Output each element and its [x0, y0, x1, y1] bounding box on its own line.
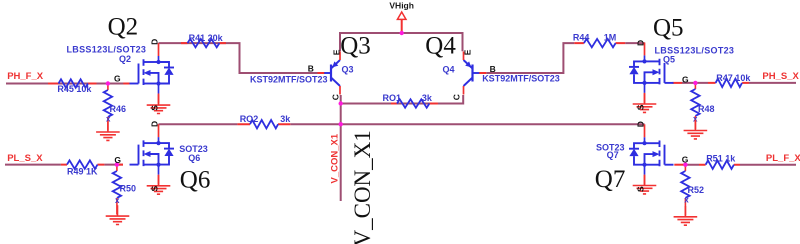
wire Q2 drain to Q3 base — [159, 43, 325, 73]
wire Q5 gate row — [682, 82, 796, 84]
svg-text:R52: R52 — [688, 185, 705, 195]
wire Q7 gate row — [685, 164, 796, 166]
svg-text:Q4: Q4 — [425, 33, 456, 60]
svg-text:PL_S_X: PL_S_X — [7, 153, 43, 164]
resistor R49 — [67, 160, 97, 168]
svg-text:Q6: Q6 — [188, 153, 200, 163]
svg-text:E: E — [331, 49, 341, 55]
svg-text:B: B — [308, 64, 314, 74]
wire red stubs R41 — [181, 42, 226, 44]
svg-text:Q6: Q6 — [180, 166, 211, 193]
svg-text:R41 20k: R41 20k — [189, 33, 224, 43]
svg-text:V_CON_X1: V_CON_X1 — [330, 133, 341, 183]
transistor Q5 (mirrored) — [629, 43, 674, 103]
wire red stub Q7 gate — [674, 164, 685, 166]
svg-text:D: D — [149, 39, 159, 45]
wire red stub Q4 base — [479, 72, 486, 74]
wire PL_S_X row — [5, 164, 123, 166]
wire red stubs R45 — [48, 83, 97, 85]
ground Q5 source — [633, 93, 657, 112]
node R45/R46 junction — [106, 81, 110, 85]
ground Q6 source — [147, 175, 171, 194]
resistor R44 — [584, 39, 616, 47]
resistor R46 — [104, 84, 126, 131]
svg-text:C: C — [452, 94, 462, 100]
svg-text:Q5: Q5 — [663, 54, 675, 64]
transistor Q6 — [130, 124, 175, 184]
resistor R47 — [716, 79, 742, 87]
svg-text:PL_F_X: PL_F_X — [766, 153, 800, 164]
svg-text:Q3: Q3 — [340, 33, 371, 60]
svg-text:R45 10k: R45 10k — [57, 84, 92, 94]
svg-text:R44: R44 — [573, 33, 590, 43]
wire V_CON vertical — [340, 104, 342, 202]
svg-text:VHigh: VHigh — [389, 0, 414, 10]
wire red stub Q6 gate — [117, 164, 123, 166]
resistor R41 — [188, 39, 220, 47]
resistor R50 — [113, 165, 136, 215]
svg-text:x: x — [684, 196, 689, 205]
svg-text:G: G — [682, 155, 689, 165]
svg-text:D: D — [149, 121, 159, 127]
svg-text:Q2: Q2 — [108, 14, 139, 41]
svg-text:3k: 3k — [422, 93, 433, 103]
svg-text:D: D — [635, 40, 645, 46]
svg-text:G: G — [682, 75, 689, 85]
wire RO1 row collector — [341, 95, 438, 104]
transistor Q4 (mirrored) — [464, 52, 480, 95]
ground Q2 source — [147, 94, 171, 113]
svg-text:S: S — [635, 186, 645, 192]
resistor R51 — [706, 161, 734, 169]
svg-text:KST92MTF/SOT23: KST92MTF/SOT23 — [482, 74, 560, 84]
svg-text:V_CON_X1: V_CON_X1 — [350, 130, 375, 244]
svg-text:Q4: Q4 — [443, 64, 455, 74]
svg-text:Q5: Q5 — [653, 14, 684, 41]
wire red stubs R51 — [699, 164, 740, 166]
wire Q4 base to R44 to Q5 drain — [486, 43, 644, 73]
svg-text:Q7: Q7 — [607, 150, 619, 160]
svg-text:R47 10k: R47 10k — [716, 73, 751, 83]
ground R50 — [106, 205, 130, 224]
svg-text:D: D — [635, 121, 645, 127]
node Q3 collector junction — [339, 101, 343, 105]
svg-text:G: G — [114, 74, 121, 84]
wire red stub VHigh — [401, 19, 403, 33]
node R51/R52 junction — [683, 163, 687, 167]
wire red stubs R49 — [61, 164, 105, 166]
transistor Q2 — [130, 43, 175, 103]
wire red stubs R47 — [708, 82, 749, 84]
resistor R45 — [59, 79, 89, 87]
resistor R52 — [681, 165, 704, 216]
svg-text:S: S — [149, 105, 159, 111]
svg-text:R51 1k: R51 1k — [706, 153, 736, 163]
power VHigh — [389, 0, 414, 19]
transistor Q7 (mirrored) — [629, 124, 674, 184]
svg-text:Q3: Q3 — [342, 64, 354, 74]
svg-text:PH_S_X: PH_S_X — [762, 71, 799, 82]
svg-text:G: G — [114, 155, 121, 165]
wire red stubs R44 — [574, 42, 625, 44]
wire PH_F_X row — [6, 83, 130, 85]
node R49/R50 junction — [115, 162, 119, 166]
svg-text:RO1: RO1 — [383, 93, 402, 103]
svg-text:KST92MTF/SOT23: KST92MTF/SOT23 — [250, 74, 328, 84]
svg-text:1M: 1M — [604, 33, 617, 43]
wire red stubs RO1 — [391, 103, 438, 105]
svg-text:PH_F_X: PH_F_X — [7, 71, 44, 82]
svg-text:C: C — [331, 94, 341, 100]
node R47/R48 junction — [693, 81, 697, 85]
svg-text:R50: R50 — [120, 184, 137, 194]
wire VHigh rail — [340, 33, 463, 51]
node VHigh junction — [400, 31, 404, 35]
svg-text:RO2: RO2 — [240, 114, 259, 124]
svg-text:3k: 3k — [280, 114, 291, 124]
ground R48 — [684, 120, 708, 139]
svg-text:E: E — [462, 49, 472, 55]
transistor Q3 — [324, 52, 340, 95]
svg-text:B: B — [490, 64, 496, 74]
svg-text:LBSS123L/SOT23: LBSS123L/SOT23 — [67, 45, 147, 55]
wire RO2 row — [159, 123, 645, 125]
svg-text:R48: R48 — [698, 104, 715, 114]
svg-text:R49 1K: R49 1K — [67, 167, 98, 177]
wire red stub Q2 gate — [123, 83, 129, 85]
resistor RO1 — [397, 99, 429, 107]
wire red stub Q3 base — [318, 72, 325, 74]
ground R52 — [674, 206, 698, 225]
svg-text:Q2: Q2 — [119, 54, 131, 64]
ground Q7 source — [633, 175, 657, 194]
wire red stub Q5 gate — [673, 82, 683, 84]
wire red stubs RO2 — [237, 123, 290, 125]
svg-text:R46: R46 — [110, 104, 127, 114]
svg-text:S: S — [635, 104, 645, 110]
resistor RO2 — [250, 120, 278, 128]
ground R46 — [96, 121, 120, 140]
svg-text:S: S — [149, 186, 159, 192]
svg-text:Q7: Q7 — [595, 166, 626, 193]
svg-text:x: x — [115, 196, 120, 205]
node V_CON_X1 junction — [339, 122, 343, 126]
resistor R48 — [691, 83, 714, 129]
